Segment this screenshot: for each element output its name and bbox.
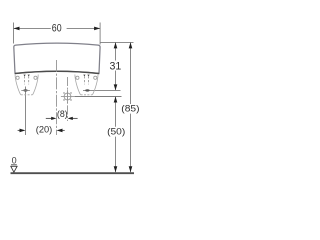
- svg-text:(85): (85): [121, 103, 139, 114]
- dim 31 bottom arrow: [114, 84, 118, 90]
- dim 60 line: [14, 27, 51, 29]
- dim 60 left arrow: [14, 27, 20, 31]
- dim (85) top arrow: [129, 42, 133, 48]
- datum triangle: [11, 166, 17, 172]
- right bracket bottom dashed edge: [81, 94, 93, 96]
- right bracket outline: [75, 75, 98, 95]
- drain crosshair symbol: [61, 90, 74, 103]
- svg-text:60: 60: [52, 22, 62, 34]
- dim (85) line: [130, 42, 132, 104]
- dim 60 right arrow: [94, 27, 100, 31]
- svg-text:(8): (8): [57, 109, 68, 120]
- right bracket hole right: [94, 76, 97, 79]
- dim (8) left arrow: [46, 117, 52, 119]
- crosshair quadrant dots: [63, 92, 71, 100]
- right bracket slot dashes: [83, 76, 85, 84]
- svg-text:(50): (50): [107, 127, 125, 138]
- drain crosshair vertical centerline: [67, 77, 69, 121]
- left bolt cross line: [21, 89, 30, 91]
- left bracket top marks: [24, 75, 26, 77]
- basin body outline: [14, 43, 100, 73]
- dim 60 right extension line: [99, 23, 101, 45]
- top-right extension line: [100, 41, 133, 43]
- svg-text:(20): (20): [36, 125, 53, 136]
- svg-text:31: 31: [110, 60, 122, 72]
- floor line: [11, 172, 135, 174]
- dim (20) left arrow: [18, 129, 22, 131]
- dim 60 left extension line: [13, 23, 15, 44]
- datum underline: [11, 164, 17, 166]
- left bracket slot dashes: [24, 76, 26, 84]
- svg-text:0: 0: [12, 156, 17, 166]
- bolt-level extension line: [83, 89, 121, 91]
- dim (50) line: [115, 97, 117, 127]
- dim 31 line: [115, 42, 117, 60]
- dim (50) bottom arrow: [114, 166, 118, 172]
- dim (50) top arrow: [114, 97, 118, 103]
- centerline of basin: [56, 60, 58, 135]
- dim (20) right arrow: [61, 129, 65, 131]
- left bolt vertical extension line: [25, 87, 27, 136]
- dim (85) bottom arrow: [129, 166, 133, 172]
- right fixing bolt: [85, 89, 89, 91]
- left bracket hole left: [16, 76, 19, 79]
- dim 31 top arrow: [114, 42, 118, 48]
- basin bottom edge: [15, 71, 99, 73]
- left bracket hole right: [34, 76, 37, 79]
- dim (8) right arrow: [73, 117, 78, 119]
- right bracket top marks: [83, 75, 85, 77]
- right bracket hole left: [76, 76, 79, 79]
- left fixing bolt: [23, 89, 27, 91]
- crosshair-level extension line: [74, 96, 121, 98]
- left bracket outline: [15, 75, 38, 95]
- left bracket bottom dashed edge: [21, 94, 33, 96]
